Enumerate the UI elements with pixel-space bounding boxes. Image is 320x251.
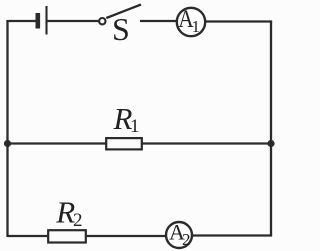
svg-text:1: 1	[192, 17, 201, 36]
svg-text:S: S	[112, 11, 130, 47]
svg-text:2: 2	[182, 230, 191, 249]
svg-text:2: 2	[73, 210, 83, 231]
svg-text:1: 1	[130, 116, 140, 137]
